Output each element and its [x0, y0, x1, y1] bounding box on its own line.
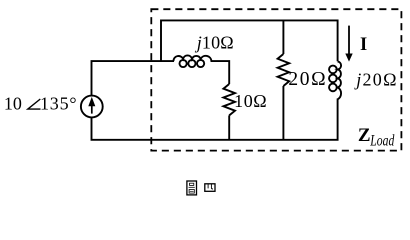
svg-text:Load: Load [370, 131, 395, 149]
svg-text:I: I [360, 35, 367, 55]
svg-text:10Ω: 10Ω [234, 91, 267, 111]
svg-text:10: 10 [4, 93, 22, 113]
svg-text:20Ω: 20Ω [288, 69, 327, 90]
svg-text:j20Ω: j20Ω [354, 69, 398, 89]
svg-text:j10Ω: j10Ω [195, 32, 234, 52]
svg-text:135°: 135° [40, 93, 77, 113]
svg-text:Z: Z [358, 125, 371, 146]
